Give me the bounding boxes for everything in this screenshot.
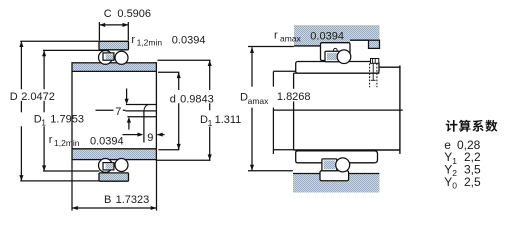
svg-text:C: C	[104, 8, 112, 20]
ball top-right	[115, 51, 128, 64]
svg-text:1: 1	[41, 117, 46, 127]
housing bottom (right figure)	[293, 174, 379, 193]
svg-text:1.8268: 1.8268	[277, 91, 311, 103]
svg-text:1.7953: 1.7953	[50, 114, 84, 126]
outer ring bottom (left figure)	[99, 173, 129, 181]
svg-text:amax: amax	[248, 96, 270, 106]
dimension B	[72, 160, 157, 211]
ball top-left	[99, 51, 113, 65]
dimension D1	[34, 50, 103, 171]
svg-text:Y: Y	[444, 175, 452, 189]
oil hole centerline	[143, 111, 145, 142]
svg-text:B: B	[104, 194, 111, 206]
grub screw	[370, 59, 379, 88]
cage bottom	[103, 163, 114, 170]
inner ring sleeve bottom (right figure)	[296, 151, 378, 163]
outer ring (right figure top)	[321, 43, 351, 61]
svg-text:0.5906: 0.5906	[117, 8, 151, 20]
shaft (right figure)	[294, 65, 400, 153]
dimension 9	[123, 132, 165, 144]
label r 1,2min top	[131, 34, 205, 48]
factor Y2	[444, 163, 481, 179]
svg-text:2,5: 2,5	[464, 175, 481, 189]
svg-text:0.0394: 0.0394	[172, 35, 206, 47]
factor e	[444, 138, 480, 152]
svg-text:0: 0	[452, 181, 457, 191]
factor Y1	[444, 150, 481, 166]
svg-text:1: 1	[452, 156, 457, 166]
dimension D	[10, 41, 99, 181]
svg-text:1,2min: 1,2min	[54, 138, 80, 148]
dimension C	[99, 8, 151, 41]
dimension da left	[273, 71, 295, 154]
svg-text:7: 7	[115, 106, 121, 118]
ball bottom-right	[115, 159, 128, 172]
dimension 7	[96, 89, 131, 130]
svg-text:r: r	[131, 34, 135, 46]
inner ring sleeve top (right figure)	[296, 62, 379, 74]
table title 计算系数	[446, 120, 498, 132]
oil groove lines	[125, 105, 156, 117]
svg-text:0.0394: 0.0394	[310, 30, 344, 42]
svg-text:r: r	[49, 134, 53, 146]
cage top (right figure)	[325, 51, 340, 61]
shaft centerline	[273, 109, 402, 111]
svg-text:amax: amax	[280, 33, 302, 43]
oil hole arc	[144, 105, 148, 112]
svg-text:1,2min: 1,2min	[137, 38, 163, 48]
svg-text:1.7323: 1.7323	[116, 194, 150, 206]
dimension D1 1.311	[156, 60, 242, 160]
cage bottom (right figure)	[322, 159, 337, 171]
label r amax	[274, 30, 344, 44]
cage top	[103, 53, 114, 60]
cage nub top	[334, 48, 338, 52]
outer ring (right figure bottom)	[320, 171, 349, 181]
dimension Da	[240, 47, 312, 171]
label r 1,2min bottom	[49, 134, 124, 148]
svg-text:9: 9	[147, 132, 153, 144]
svg-text:2.0472: 2.0472	[21, 91, 55, 103]
svg-text:0.0394: 0.0394	[90, 135, 124, 147]
outer ring top (left figure)	[99, 41, 129, 50]
dimension d	[158, 72, 214, 149]
svg-text:0.9843: 0.9843	[180, 93, 214, 105]
svg-text:2: 2	[452, 168, 457, 178]
svg-text:r: r	[274, 30, 278, 42]
svg-text:D: D	[10, 91, 18, 103]
svg-text:1.311: 1.311	[215, 114, 242, 126]
ball bottom (right figure)	[336, 158, 350, 172]
ball top (right figure)	[337, 50, 351, 64]
svg-text:1: 1	[208, 118, 213, 128]
inner ring body (left figure)	[72, 63, 156, 160]
factor Y0	[444, 175, 481, 191]
ball bottom-left	[99, 159, 113, 173]
svg-text:d: d	[170, 93, 176, 105]
housing top (right figure)	[294, 26, 380, 49]
